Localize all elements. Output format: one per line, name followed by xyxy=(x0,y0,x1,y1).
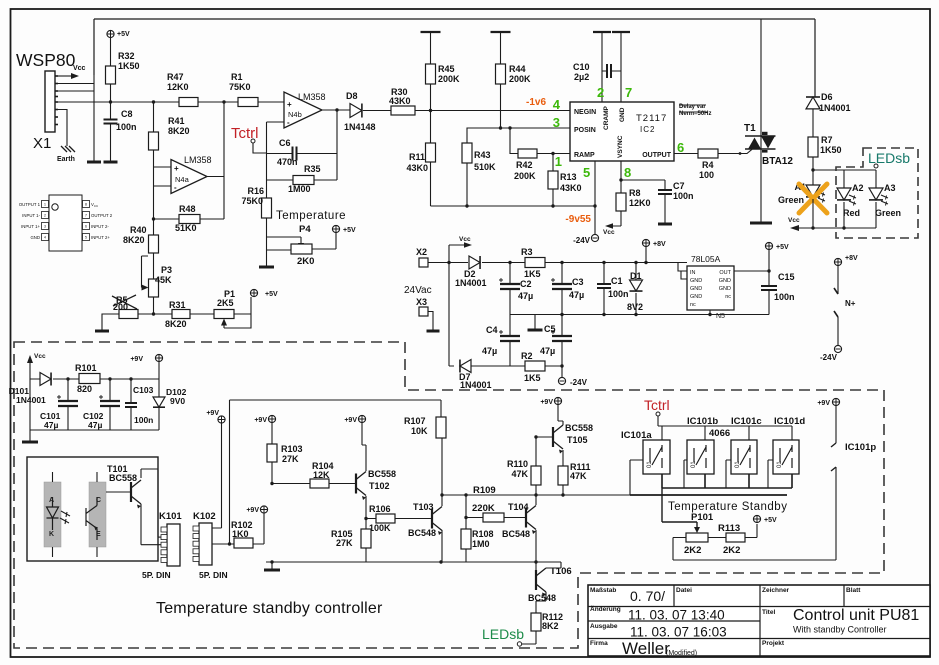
wire R30 to NEGIN xyxy=(415,110,570,112)
svg-text:+: + xyxy=(174,164,179,173)
diode D101 xyxy=(40,373,51,386)
svg-text:T104: T104 xyxy=(508,502,529,512)
+9V at R103 xyxy=(268,415,275,422)
svg-text:R2: R2 xyxy=(521,351,533,361)
svg-text:47µ: 47µ xyxy=(569,290,584,300)
svg-text:Weller: Weller xyxy=(622,639,670,658)
svg-text:8: 8 xyxy=(85,203,87,207)
svg-text:T103: T103 xyxy=(413,502,434,512)
+9V at T102 xyxy=(358,415,365,422)
svg-text:BC548: BC548 xyxy=(502,529,530,539)
svg-text:8K20: 8K20 xyxy=(168,126,190,136)
svg-text:GND: GND xyxy=(690,278,702,284)
svg-text:T1: T1 xyxy=(744,123,756,134)
orange X over A1 xyxy=(799,184,827,213)
opto transistor xyxy=(86,497,97,540)
svg-text:7: 7 xyxy=(625,85,632,100)
ground C8 xyxy=(110,124,112,162)
connector K102 xyxy=(199,523,212,565)
-24V supply bottom xyxy=(561,366,563,377)
svg-text:C103: C103 xyxy=(133,385,154,395)
LEDsb dashed box xyxy=(836,148,918,238)
svg-text:C7: C7 xyxy=(673,181,685,191)
resistor R104 xyxy=(310,479,329,488)
svg-text:nc: nc xyxy=(725,294,731,300)
svg-text:1N4001: 1N4001 xyxy=(460,380,492,390)
svg-text:R108: R108 xyxy=(472,529,494,539)
svg-text:4: 4 xyxy=(44,236,46,240)
svg-text:11. 03. 07 16:03: 11. 03. 07 16:03 xyxy=(630,625,727,640)
svg-text:12K0: 12K0 xyxy=(629,198,651,208)
svg-text:BC558: BC558 xyxy=(368,469,396,479)
svg-text:Projekt: Projekt xyxy=(762,640,785,647)
triac T1 xyxy=(745,136,776,149)
transistor T104 BC548 xyxy=(525,508,527,528)
svg-text:LEDsb: LEDsb xyxy=(482,626,524,642)
wire P3 to divider rail xyxy=(153,297,155,314)
svg-text:OUTPUT 2: OUTPUT 2 xyxy=(91,213,113,218)
svg-text:+5V: +5V xyxy=(265,291,278,298)
+5V supply C15 xyxy=(765,242,772,249)
svg-text:6: 6 xyxy=(677,140,684,155)
svg-text:1K0: 1K0 xyxy=(232,529,249,539)
-24V supply right xyxy=(834,345,841,352)
svg-text:47µ: 47µ xyxy=(88,420,102,430)
svg-text:R41: R41 xyxy=(168,116,185,126)
diode D2 xyxy=(469,256,480,269)
wire 4066 input stubs xyxy=(684,460,773,488)
Vcc arrow supply xyxy=(449,245,465,263)
svg-text:100n: 100n xyxy=(774,292,795,302)
resistor R102 xyxy=(234,538,253,548)
connector X3 xyxy=(419,307,428,316)
svg-text:100n: 100n xyxy=(608,289,629,299)
svg-text:C15: C15 xyxy=(778,272,795,282)
svg-text:1N4148: 1N4148 xyxy=(344,122,376,132)
svg-text:4066: 4066 xyxy=(709,428,730,439)
wire R109 node line xyxy=(442,460,644,495)
svg-text:OUTPUT: OUTPUT xyxy=(642,152,672,159)
svg-text:IC101b: IC101b xyxy=(687,416,718,427)
svg-text:INPUT 1-: INPUT 1- xyxy=(22,213,40,218)
svg-text:7: 7 xyxy=(85,214,87,218)
svg-text:01: 01 xyxy=(735,461,741,468)
svg-text:IC101d: IC101d xyxy=(774,416,805,427)
wire T101 xyxy=(106,469,161,545)
optocoupler module xyxy=(27,457,158,561)
capacitor C5 xyxy=(561,315,563,337)
svg-text:1N4001: 1N4001 xyxy=(455,278,487,288)
svg-text:P3: P3 xyxy=(161,265,172,275)
svg-text:R11: R11 xyxy=(409,152,425,162)
wire 4066 bottom bus xyxy=(662,474,792,488)
svg-text:2: 2 xyxy=(44,214,46,218)
switch IC101p xyxy=(835,406,837,443)
svg-text:(Modified): (Modified) xyxy=(666,650,697,657)
transistor T105 BC558 xyxy=(552,427,554,447)
svg-text:INPUT 2+: INPUT 2+ xyxy=(91,235,110,240)
+5V supply symbol xyxy=(107,30,114,37)
svg-text:1K50: 1K50 xyxy=(820,145,842,155)
capacitor C7 xyxy=(658,189,672,191)
resistor R103 xyxy=(267,444,277,462)
svg-text:-24V: -24V xyxy=(820,353,838,362)
svg-text:R47: R47 xyxy=(167,72,184,82)
svg-text:LM358: LM358 xyxy=(298,92,326,102)
opto LED xyxy=(47,497,59,530)
svg-text:Temperature: Temperature xyxy=(276,210,346,222)
svg-text:12K: 12K xyxy=(313,470,330,480)
svg-text:Tctrl: Tctrl xyxy=(644,397,670,413)
svg-text:R101: R101 xyxy=(75,363,97,373)
svg-text:R110: R110 xyxy=(507,459,528,469)
svg-text:200K: 200K xyxy=(438,74,460,84)
svg-text:With standby Controller: With standby Controller xyxy=(793,625,887,635)
trimmer P3 xyxy=(153,253,155,279)
wire LED cathodes xyxy=(798,199,876,228)
svg-text:5: 5 xyxy=(583,165,590,180)
wire OUT to +5V xyxy=(734,270,769,272)
switch contact xyxy=(650,445,662,468)
svg-text:47K: 47K xyxy=(570,471,587,481)
resistor R42 xyxy=(510,128,518,154)
resistor R112 xyxy=(536,592,546,613)
svg-text:D1: D1 xyxy=(630,271,642,281)
LED A2 xyxy=(837,188,851,200)
svg-text:01: 01 xyxy=(691,461,697,468)
svg-text:1M0: 1M0 xyxy=(472,539,490,549)
svg-text:A2: A2 xyxy=(852,183,864,193)
resistor R107 xyxy=(440,400,442,417)
svg-text:Ausgabe: Ausgabe xyxy=(590,623,618,630)
svg-text:R7: R7 xyxy=(821,135,833,145)
svg-text:Red: Red xyxy=(843,208,860,218)
capacitor C8 xyxy=(104,119,118,121)
svg-text:IN: IN xyxy=(690,270,696,276)
svg-text:C10: C10 xyxy=(573,62,590,72)
svg-text:R4: R4 xyxy=(702,160,714,170)
svg-text:A: A xyxy=(49,497,54,504)
svg-text:2K2: 2K2 xyxy=(684,545,701,556)
svg-text:1K5: 1K5 xyxy=(524,373,541,383)
svg-text:45K: 45K xyxy=(155,275,172,285)
wire N4a output xyxy=(207,102,224,219)
wire N4b output xyxy=(322,109,350,111)
svg-text:RAMP: RAMP xyxy=(574,152,595,159)
LED A3 xyxy=(869,188,883,200)
transistor T102 BC558 xyxy=(355,474,357,494)
wires K101 xyxy=(158,536,161,538)
svg-text:+9V: +9V xyxy=(246,507,259,514)
switch contact xyxy=(780,445,792,468)
svg-text:51K0: 51K0 xyxy=(175,223,197,233)
switch contact xyxy=(694,445,706,468)
svg-text:CRAMP: CRAMP xyxy=(603,106,610,130)
svg-text:NEGIN: NEGIN xyxy=(574,109,596,116)
svg-text:47µ: 47µ xyxy=(482,346,497,356)
svg-text:P4: P4 xyxy=(299,224,311,235)
svg-text:R32: R32 xyxy=(118,51,135,61)
svg-text:C6: C6 xyxy=(279,138,291,148)
wire P1 wiper to +5V xyxy=(224,297,251,328)
svg-text:10K: 10K xyxy=(411,426,428,436)
resistor R45 xyxy=(421,31,441,33)
wire X2 to D2 xyxy=(428,262,468,264)
svg-text:Firma: Firma xyxy=(590,640,608,647)
svg-text:nc: nc xyxy=(690,302,696,308)
svg-text:R109: R109 xyxy=(473,485,496,496)
svg-text:1: 1 xyxy=(555,154,562,169)
capacitor C101 xyxy=(67,379,69,401)
resistor R41 xyxy=(153,102,155,132)
transistor T106 BC548 xyxy=(535,562,537,570)
svg-text:200K: 200K xyxy=(514,171,536,181)
svg-text:+5V: +5V xyxy=(776,244,789,251)
svg-text:LM358: LM358 xyxy=(184,155,212,165)
svg-text:1K5: 1K5 xyxy=(524,269,541,279)
svg-text:9V0: 9V0 xyxy=(170,396,185,406)
wire rectified rail xyxy=(545,262,687,264)
diode D6 xyxy=(806,97,820,109)
resistor R16 xyxy=(262,198,272,218)
svg-text:R48: R48 xyxy=(179,204,196,214)
+9V at R102 xyxy=(260,506,267,513)
svg-text:R13: R13 xyxy=(560,172,577,182)
svg-text:R40: R40 xyxy=(130,225,147,235)
svg-text:510K: 510K xyxy=(474,162,496,172)
svg-text:+5V: +5V xyxy=(764,517,777,524)
svg-text:X2: X2 xyxy=(416,247,427,257)
svg-text:+5V: +5V xyxy=(117,31,130,38)
svg-text:K: K xyxy=(49,531,54,538)
svg-text:WSP80: WSP80 xyxy=(16,50,76,70)
svg-text:0. 70/: 0. 70/ xyxy=(630,588,665,604)
wire OUTPUT pin6 xyxy=(674,153,698,155)
op-amp N4b LM358 xyxy=(284,92,322,128)
svg-text:Datei: Datei xyxy=(676,587,692,594)
svg-text:2: 2 xyxy=(597,85,604,100)
Vcc arrow R8 xyxy=(612,211,621,226)
svg-text:GND: GND xyxy=(690,294,702,300)
svg-text:2µ2: 2µ2 xyxy=(574,72,589,82)
+8V supply right xyxy=(834,258,841,265)
wire X1 pin4 xyxy=(58,90,94,92)
svg-text:Vcc: Vcc xyxy=(34,353,46,360)
svg-text:VSYNC: VSYNC xyxy=(617,135,624,158)
svg-text:INPUT 1+: INPUT 1+ xyxy=(21,224,40,229)
wire standby bottom rail xyxy=(266,561,561,563)
svg-text:-: - xyxy=(287,118,290,127)
svg-text:+8V: +8V xyxy=(845,255,858,262)
svg-text:Maßstab: Maßstab xyxy=(590,587,616,594)
svg-text:200K: 200K xyxy=(509,74,531,84)
svg-text:Blatt: Blatt xyxy=(846,587,861,594)
wire supply mid rail xyxy=(510,314,769,316)
svg-text:C5: C5 xyxy=(544,324,556,334)
resistor R2 xyxy=(525,361,545,371)
resistor R108 xyxy=(465,518,467,530)
svg-text:8K20: 8K20 xyxy=(165,319,187,329)
svg-text:+9V: +9V xyxy=(817,400,830,407)
svg-text:100n: 100n xyxy=(673,191,694,201)
ground P4 xyxy=(259,266,274,269)
svg-text:IC2: IC2 xyxy=(640,125,655,134)
svg-text:+9V: +9V xyxy=(130,356,143,363)
svg-text:+9V: +9V xyxy=(254,417,267,424)
svg-text:100n: 100n xyxy=(116,122,137,132)
capacitor C3 xyxy=(561,263,563,285)
ground supply xyxy=(534,315,536,330)
svg-text:1N4001: 1N4001 xyxy=(819,103,851,113)
svg-text:2K2: 2K2 xyxy=(723,545,740,556)
resistor R110 xyxy=(536,437,553,466)
svg-text:100K: 100K xyxy=(369,523,391,533)
svg-text:R103: R103 xyxy=(281,444,303,454)
wire -9V rail xyxy=(431,205,596,207)
resistor R31 xyxy=(138,313,172,315)
+9V at K102 xyxy=(218,416,225,423)
switch N+ xyxy=(837,266,839,294)
svg-text:75K0: 75K0 xyxy=(229,82,251,92)
svg-text:-1v6: -1v6 xyxy=(526,97,546,108)
svg-text:100: 100 xyxy=(699,170,714,180)
svg-text:C4: C4 xyxy=(486,325,498,335)
resistor R1 xyxy=(238,98,258,107)
svg-text:1: 1 xyxy=(44,203,46,207)
svg-text:Titel: Titel xyxy=(762,609,775,616)
svg-text:01: 01 xyxy=(647,461,653,468)
wire T1 to ground xyxy=(760,19,762,222)
svg-text:27K: 27K xyxy=(282,454,299,464)
transistor T103 BC548 xyxy=(431,509,433,529)
ground X1 rail xyxy=(93,75,95,162)
svg-text:C2: C2 xyxy=(520,279,532,289)
regulator N5 78L05A xyxy=(687,266,734,310)
capacitor C10 xyxy=(593,31,611,33)
wire to P101 xyxy=(662,488,697,528)
svg-text:5P. DIN: 5P. DIN xyxy=(199,570,228,580)
svg-text:R1: R1 xyxy=(231,72,243,82)
wire Tctrl to N4b inverting input xyxy=(253,122,284,198)
svg-text:-24V: -24V xyxy=(573,236,591,245)
svg-text:12K0: 12K0 xyxy=(167,82,189,92)
svg-text:Zeichner: Zeichner xyxy=(762,587,790,594)
opto pin wires xyxy=(53,472,98,557)
svg-text:R106: R106 xyxy=(369,504,391,514)
svg-text:+5V: +5V xyxy=(343,227,356,234)
wire T103 collector xyxy=(441,438,443,562)
+9V at T105 xyxy=(554,397,561,404)
capacitor C4 xyxy=(509,315,511,337)
resistor R101 xyxy=(79,374,100,384)
svg-text:3: 3 xyxy=(44,225,46,229)
+5V at P4 xyxy=(332,225,339,232)
wire LED feed xyxy=(813,157,876,188)
svg-text:INPUT 2-: INPUT 2- xyxy=(91,224,109,229)
svg-text:1M00: 1M00 xyxy=(288,184,311,194)
resistor R44 xyxy=(491,31,511,33)
svg-text:+9V: +9V xyxy=(540,399,553,406)
svg-text:+9V: +9V xyxy=(344,417,357,424)
svg-text:C8: C8 xyxy=(121,109,133,119)
svg-text:75K0: 75K0 xyxy=(241,196,263,206)
svg-text:R42: R42 xyxy=(516,160,533,170)
svg-text:Vcc: Vcc xyxy=(73,65,86,72)
svg-text:R113: R113 xyxy=(718,523,740,534)
wire to LEDsb connector xyxy=(522,631,536,644)
wire POSIN xyxy=(467,128,570,143)
wire R41 to N4a input xyxy=(154,150,172,222)
diode D8 xyxy=(350,104,362,118)
wire X1 sense line xyxy=(58,101,284,103)
svg-text:2K5: 2K5 xyxy=(217,298,234,308)
wire pin5 to -24V xyxy=(594,161,596,234)
zener D1 xyxy=(635,263,637,281)
op-amp IC2 T2117 xyxy=(570,102,674,161)
svg-text:-: - xyxy=(174,183,177,192)
wire standby top rail xyxy=(230,400,442,544)
svg-text:-24V: -24V xyxy=(570,378,588,387)
wire 4066 control line xyxy=(658,426,792,440)
svg-text:N+: N+ xyxy=(845,299,856,308)
+5V at R113 xyxy=(745,524,757,538)
svg-text:Vcc: Vcc xyxy=(459,236,471,243)
svg-text:47µ: 47µ xyxy=(44,420,58,430)
trimmer P1 xyxy=(190,313,214,315)
svg-text:T102: T102 xyxy=(369,481,390,491)
svg-text:6: 6 xyxy=(85,225,87,229)
svg-text:5P. DIN: 5P. DIN xyxy=(142,570,171,580)
+8V supply symbol xyxy=(642,239,649,246)
svg-text:47µ: 47µ xyxy=(540,346,555,356)
+5V supply at P1 xyxy=(250,289,257,296)
ground R5 xyxy=(102,314,119,330)
svg-text:8: 8 xyxy=(624,165,631,180)
svg-text:IC101p: IC101p xyxy=(845,442,876,453)
svg-text:24Vac: 24Vac xyxy=(404,285,432,296)
resistor R106 xyxy=(376,514,395,523)
svg-text:1N4001: 1N4001 xyxy=(16,395,46,405)
svg-text:X3: X3 xyxy=(416,297,427,307)
svg-text:K101: K101 xyxy=(159,511,182,522)
svg-text:Änderung: Änderung xyxy=(590,605,621,613)
resistor R47 xyxy=(179,98,198,107)
ground standby xyxy=(30,379,159,441)
svg-text:3: 3 xyxy=(553,115,560,130)
svg-text:R31: R31 xyxy=(169,300,186,310)
wire gate xyxy=(718,149,752,153)
svg-text:N4a: N4a xyxy=(175,175,190,184)
svg-text:Temperature standby controller: Temperature standby controller xyxy=(156,600,383,617)
resistor R109 220K xyxy=(466,495,483,518)
svg-text:+: + xyxy=(287,100,292,109)
svg-text:Vcc: Vcc xyxy=(788,217,800,224)
svg-text:GND: GND xyxy=(719,286,731,292)
svg-text:OUTPUT 1: OUTPUT 1 xyxy=(19,202,41,207)
resistor R105 xyxy=(365,519,367,530)
svg-text:01: 01 xyxy=(777,461,783,468)
svg-text:+9V: +9V xyxy=(206,410,219,417)
resistor R113 xyxy=(708,537,726,539)
IC pinout legend LM358 xyxy=(49,195,82,251)
svg-text:BC558: BC558 xyxy=(565,423,593,433)
svg-text:OUT: OUT xyxy=(719,270,731,276)
capacitor C1 xyxy=(603,263,605,285)
svg-text:8K20: 8K20 xyxy=(123,235,145,245)
svg-text:11. 03. 07 13:40: 11. 03. 07 13:40 xyxy=(628,608,725,623)
op-amp N4a LM358 xyxy=(171,160,207,194)
svg-text:T105: T105 xyxy=(567,435,588,445)
